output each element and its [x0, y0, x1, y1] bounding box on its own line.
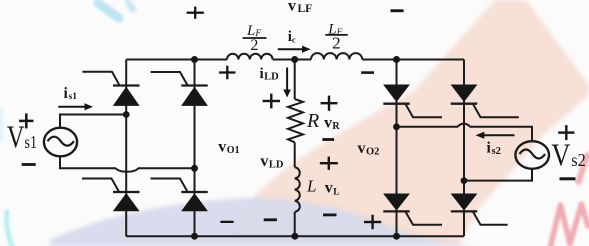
- svg-text:L: L: [306, 177, 316, 196]
- svg-text:s2: s2: [571, 150, 586, 170]
- svg-text:V: V: [7, 119, 25, 155]
- svg-text:2: 2: [250, 37, 258, 54]
- svg-text:s1: s1: [25, 132, 38, 152]
- svg-text:2: 2: [332, 34, 341, 53]
- svg-text:R: R: [306, 110, 319, 132]
- svg-text:V: V: [551, 137, 570, 173]
- svg-text:vLF: vLF: [288, 0, 312, 15]
